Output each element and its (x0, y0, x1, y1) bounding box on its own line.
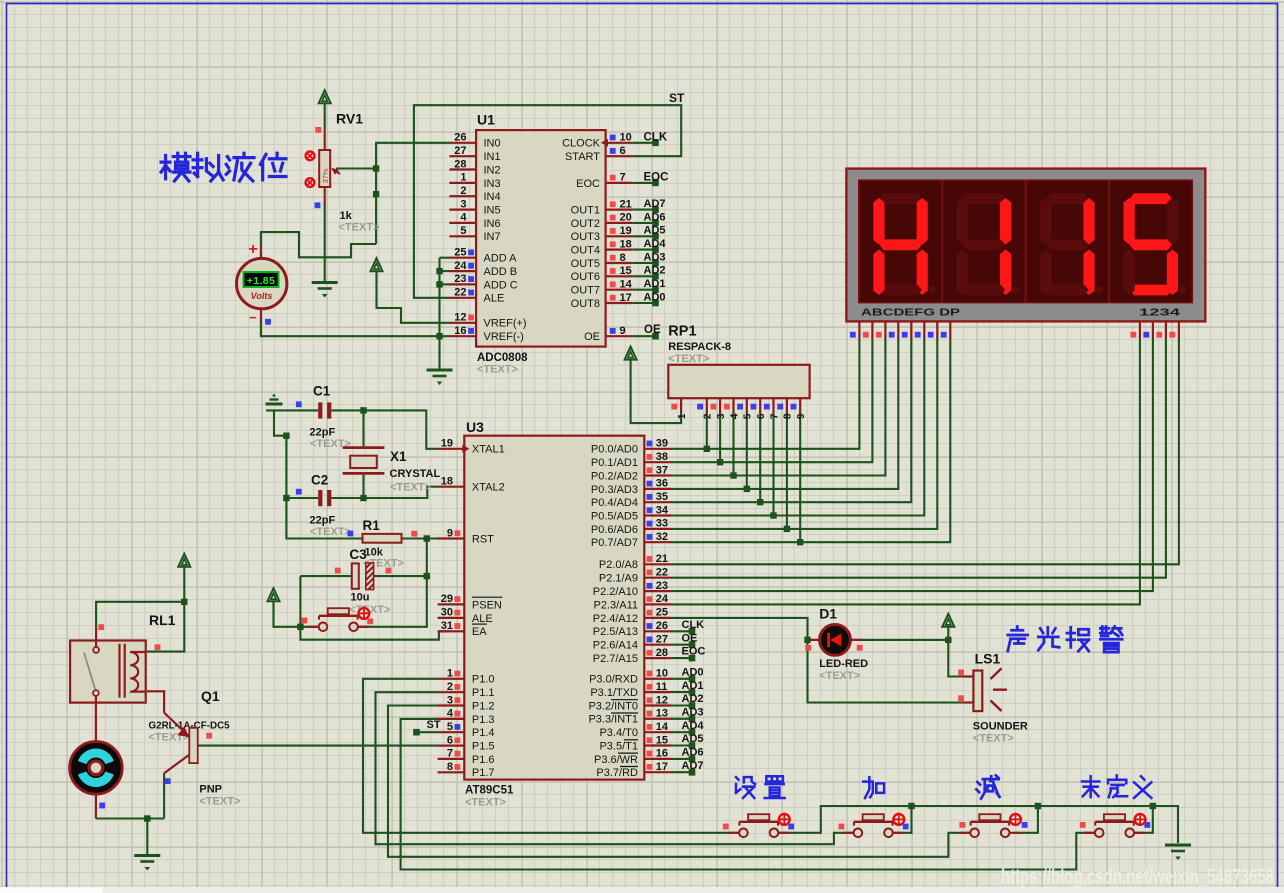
svg-text:AD6: AD6 (682, 747, 704, 759)
svg-text:P2.4/A12: P2.4/A12 (593, 613, 638, 625)
svg-text:16: 16 (656, 748, 668, 760)
svg-text:25: 25 (454, 247, 466, 259)
svg-text:18: 18 (441, 476, 453, 488)
node P0.4 / RP1 junction (757, 499, 763, 505)
svg-text:P1.1: P1.1 (472, 687, 495, 699)
U3 pin 7 state square (455, 751, 461, 757)
RV1 pin state squares (315, 127, 321, 133)
svg-text:6: 6 (447, 734, 453, 746)
Q1 state squares (206, 733, 212, 739)
display segment pin DP (949, 321, 951, 338)
push button SET (739, 829, 748, 838)
RV1 terminal marker bottom (306, 178, 315, 187)
svg-text:4: 4 (447, 708, 454, 720)
U1 pin 23 ADD C (449, 283, 476, 285)
display digit 1 showing H (873, 193, 936, 295)
svg-text:CLOCK: CLOCK (562, 138, 601, 150)
U3 pin 30 ALE (438, 617, 465, 619)
U3 pin 12 state square (647, 697, 653, 703)
crystal X1 (343, 446, 385, 449)
U3 pin 1 P1.0 (438, 678, 465, 680)
svg-text:22: 22 (454, 287, 466, 299)
svg-text:12: 12 (454, 312, 466, 324)
svg-text:22pF: 22pF (310, 515, 336, 527)
svg-text:33: 33 (656, 518, 668, 530)
U3 pin 9 RST (438, 537, 465, 539)
svg-text:P1.5: P1.5 (472, 741, 495, 753)
wire CLK stub at U1 CLOCK (632, 142, 655, 144)
U3 pin 29 state square (455, 596, 461, 602)
svg-text:RP1: RP1 (668, 324, 696, 340)
node P0.2 / RP1 junction (730, 472, 736, 478)
ground below U1 (427, 369, 453, 372)
relay switch lever (84, 653, 95, 690)
wire U3 P2.0 to display digit 4 common (671, 337, 1179, 564)
wire AD1 stub at U1 OUT7 (632, 289, 655, 291)
svg-text:CRYSTAL: CRYSTAL (390, 468, 441, 480)
node VCC row junction (297, 624, 303, 630)
Q1 collector (164, 755, 189, 774)
svg-text:AD2: AD2 (682, 693, 704, 705)
svg-text:OUT2: OUT2 (571, 218, 600, 230)
svg-text:AD4: AD4 (682, 720, 705, 732)
svg-text:−: − (249, 310, 257, 325)
svg-text:13: 13 (656, 708, 668, 720)
svg-text:OUT3: OUT3 (571, 231, 600, 243)
display digit 1 common pin (1139, 321, 1141, 338)
wire AD2 stub at U3 P3.2 (671, 704, 692, 706)
svg-text:<TEXT>: <TEXT> (339, 222, 380, 234)
U3 pin 12 P3.2/INT0 (644, 704, 671, 706)
wire power stem to relay junction (183, 567, 185, 602)
motor state square (99, 803, 105, 809)
IC U1 ADC0808 body (476, 130, 605, 347)
svg-text:AD7: AD7 (682, 760, 704, 772)
svg-text:IN0: IN0 (484, 138, 501, 150)
svg-text:AD5: AD5 (682, 733, 704, 745)
svg-text:27: 27 (454, 145, 466, 157)
node X1/C2 junction (360, 495, 366, 501)
svg-text:P3.1/TXD: P3.1/TXD (590, 687, 638, 699)
display digit 4 common pin (1178, 321, 1180, 338)
wire power to U1 VREF(+) (377, 271, 450, 323)
U3 PSEN overline (472, 596, 503, 598)
wire U3 P1.3 to button UNDEF (401, 719, 1095, 870)
svg-text:<TEXT>: <TEXT> (310, 526, 351, 538)
svg-text:IN5: IN5 (484, 205, 501, 217)
svg-text:16: 16 (454, 325, 466, 337)
svg-text:D1: D1 (819, 606, 837, 622)
U3 pin 24 state square (647, 596, 653, 602)
node P0.6 / RP1 junction (784, 526, 790, 532)
svg-text:8: 8 (620, 252, 626, 264)
ground at button rail (1165, 844, 1191, 847)
U1 pin 14 OUT7 (606, 289, 633, 291)
svg-text:6: 6 (756, 413, 767, 419)
svg-text:VREF(+): VREF(+) (484, 318, 527, 330)
U3 pin 2 state square (455, 684, 461, 690)
svg-text:5: 5 (447, 721, 453, 733)
relay bottom contact to motor (95, 696, 97, 742)
svg-text:P1.7: P1.7 (472, 767, 495, 779)
sounder LS1 body (973, 671, 982, 712)
wire ADD B tap (440, 270, 450, 272)
svg-text:4: 4 (729, 413, 740, 419)
svg-text:EOC: EOC (644, 171, 669, 183)
svg-text:IN7: IN7 (484, 231, 501, 243)
ground below motor (134, 854, 160, 857)
wire RP1 pin 2 drop (706, 412, 708, 449)
svg-text:1k: 1k (340, 210, 353, 222)
U3 pin 21 state square (647, 556, 653, 562)
svg-text:P0.0/AD0: P0.0/AD0 (591, 444, 638, 456)
wire C2 right to XTAL2 (331, 487, 438, 498)
U1 pin 16 state square (468, 328, 474, 334)
svg-text:PNP: PNP (199, 784, 222, 796)
svg-text:P2.1/A9: P2.1/A9 (599, 573, 638, 585)
svg-text:P2.7/A15: P2.7/A15 (593, 653, 638, 665)
svg-text:25: 25 (656, 607, 668, 619)
wire AD1 stub at U3 P3.1 (671, 691, 692, 693)
wire U3 P2.2 to display digit 2 common (671, 337, 1153, 591)
label (Chinese) undefined button (1082, 776, 1099, 797)
wire motor bottom row (96, 817, 164, 819)
U3 pin 15 P3.5/T1 (644, 744, 671, 746)
svg-text:21: 21 (620, 198, 632, 210)
svg-text:EOC: EOC (682, 646, 706, 658)
svg-text:OUT6: OUT6 (571, 271, 600, 283)
svg-text:U3: U3 (466, 419, 484, 435)
svg-text:<TEXT>: <TEXT> (973, 733, 1014, 745)
svg-text:P0.3/AD3: P0.3/AD3 (591, 484, 638, 496)
capacitor C1 (318, 402, 322, 418)
RP1 pin 5 (746, 398, 748, 413)
U3 P3.6 WR overline (618, 752, 638, 754)
U3 pin 14 P3.4/T0 (644, 731, 671, 733)
display segment pin C (884, 321, 886, 338)
U1 pin 17 OUT8 (606, 302, 633, 304)
U3 pin 37 P0.2/AD2 (644, 474, 671, 476)
power arrow at relay (178, 554, 190, 567)
node C2 left junction (283, 495, 289, 501)
wire C3 left (300, 575, 351, 577)
LED D1 (820, 625, 851, 656)
svg-text:14: 14 (656, 721, 669, 733)
U3 pin 4 state square (455, 711, 461, 717)
svg-text:23: 23 (656, 580, 668, 592)
wire C2 left (286, 497, 318, 499)
wire AD6 stub at U1 OUT2 (632, 222, 655, 224)
node P0.5 / RP1 junction (770, 512, 776, 518)
U3 pin 6 state square (455, 737, 461, 743)
wire AD5 stub at U1 OUT3 (632, 235, 655, 237)
svg-text:P3.3/INT1: P3.3/INT1 (588, 714, 638, 726)
svg-text:1234: 1234 (1139, 307, 1180, 319)
svg-text:ST: ST (669, 91, 685, 105)
svg-text:AD5: AD5 (644, 225, 666, 237)
label (Chinese) analog liquid level (161, 153, 190, 181)
ground below RV1 (312, 281, 338, 284)
svg-text:U1: U1 (477, 112, 495, 128)
display segment pin F (923, 321, 925, 338)
voltmeter top pin (260, 246, 262, 259)
svg-text:P2.6/A14: P2.6/A14 (593, 640, 638, 652)
wire relay coil bottom to Q1 emitter (147, 691, 164, 712)
D1 state squares (805, 645, 811, 651)
U3 P3.5 T1 overline (624, 739, 638, 741)
U3 pin 25 state square (647, 610, 653, 616)
wire AD2 stub at U1 OUT6 (632, 275, 655, 277)
U3 pin 23 P2.2/A10 (644, 590, 671, 592)
U1 pin 18 state square (610, 241, 616, 247)
node P0.0 / RP1 junction (704, 446, 710, 452)
voltmeter pin state square (265, 319, 271, 325)
svg-text:OUT1: OUT1 (571, 205, 600, 217)
svg-text:<TEXT>: <TEXT> (819, 670, 860, 682)
U3 pin 23 state square (647, 583, 653, 589)
display segment pin A (858, 321, 860, 338)
U1 pin 24 state square (468, 263, 474, 269)
display segment pin G (936, 321, 938, 338)
wire button UNDEF right drop (1133, 806, 1153, 833)
wire U3 P1.0 to button SET (363, 679, 739, 833)
U1 pin 24 ADD B (449, 270, 476, 272)
wire U3 P0.5 to display segment pin (671, 337, 924, 516)
svg-text:P2.5/A13: P2.5/A13 (593, 626, 638, 638)
display digit 2 common pin (1152, 321, 1154, 338)
U1 pin 25 state square (468, 250, 474, 256)
U1 pin 12 VREF(+) (449, 322, 476, 324)
wire U3 P2.4 to LED D1 (671, 618, 808, 640)
U3 pin 34 state square (647, 507, 653, 513)
svg-text:38: 38 (656, 451, 668, 463)
svg-text:C3: C3 (349, 547, 367, 562)
U3 pin 11 P3.1/TXD (644, 691, 671, 693)
svg-text:https://blog.csdn.net/weixin_5: https://blog.csdn.net/weixin_54873658 (1001, 866, 1274, 889)
svg-text:2: 2 (703, 413, 714, 419)
svg-text:P0.1/AD1: P0.1/AD1 (591, 457, 638, 469)
svg-text:1: 1 (447, 668, 453, 680)
RP1 pin 6 (759, 398, 761, 413)
svg-text:2: 2 (460, 185, 466, 197)
wire C3 right (374, 575, 427, 577)
svg-text:P1.4: P1.4 (472, 727, 495, 739)
wire AD6 stub at U3 P3.6 (671, 758, 692, 760)
wire U3 P0.2 to display segment pin (671, 337, 886, 476)
RP1 pin 7 (772, 398, 774, 413)
display segment pin E (910, 321, 912, 338)
U3 pin 33 state square (647, 521, 653, 527)
svg-text:P0.7/AD7: P0.7/AD7 (591, 537, 638, 549)
wire button MINUS right drop (1014, 806, 1038, 833)
wire power to RV1 top (324, 104, 326, 130)
display digit 3 common pin (1165, 321, 1167, 338)
wire RV1 wiper short (338, 167, 376, 169)
wire ADD C tap (440, 283, 450, 285)
motor body (70, 742, 123, 795)
node C3 right junction (424, 573, 430, 579)
svg-text:29: 29 (441, 593, 453, 605)
RP1 pin 1 (680, 398, 682, 412)
node ADD C junction (436, 281, 442, 287)
ground at C1 (266, 403, 283, 406)
U1 pin 6 state square (610, 148, 616, 154)
transistor Q1 base bar (189, 728, 197, 763)
svg-text:35: 35 (656, 491, 668, 503)
U3 pin 17 state square (647, 764, 653, 770)
U1 pin 5 IN7 (449, 235, 476, 237)
C1 state square (296, 401, 302, 407)
RP1 pin 2 (706, 398, 708, 413)
svg-text:1: 1 (460, 172, 466, 184)
svg-text:14: 14 (620, 279, 633, 291)
U3 XTAL1 input arrow (462, 445, 469, 453)
node ADD B junction (436, 268, 442, 274)
wire relay VCC net (96, 602, 184, 628)
svg-text:ADD C: ADD C (484, 279, 518, 291)
wire ST net: U1 START to U1 ALE (414, 105, 681, 298)
node C1/X1 junction (360, 407, 366, 413)
U1 pin 4 IN6 (449, 222, 476, 224)
svg-text:7: 7 (447, 748, 453, 760)
svg-text:P2.3/A11: P2.3/A11 (594, 599, 638, 611)
node VREF(-) junction (436, 333, 442, 339)
svg-text:3: 3 (460, 198, 466, 210)
U1 pin 23 state square (468, 276, 474, 282)
svg-text:AD6: AD6 (644, 211, 666, 223)
U1 pin 27 IN1 (449, 155, 476, 157)
svg-text:19: 19 (620, 225, 632, 237)
U1 pin 19 state square (610, 228, 616, 234)
IC U3 AT89C51 body (464, 436, 644, 780)
svg-text:IN4: IN4 (484, 191, 501, 203)
U1 pin 25 ADD A (449, 257, 476, 259)
svg-text:34: 34 (656, 504, 669, 516)
voltmeter bottom pin (260, 309, 262, 322)
svg-text:36: 36 (656, 478, 668, 490)
LS1 sound rays (991, 668, 1008, 711)
U3 pin 35 state square (647, 494, 653, 500)
wire AD7 stub at U3 P3.7 (671, 771, 692, 773)
wire R1 right to U3 RST (402, 537, 450, 539)
wire Q1 collector drop (163, 773, 165, 818)
U1 pin 16 VREF(-) (449, 335, 476, 337)
svg-text:RST: RST (472, 533, 494, 545)
svg-text:39: 39 (656, 438, 668, 450)
label (Chinese) sound and light alarm (1008, 626, 1028, 651)
svg-text:C2: C2 (311, 473, 328, 488)
svg-text:+: + (248, 241, 257, 258)
U3 pin 18 XTAL2 (438, 486, 465, 488)
U3 pin 36 P0.3/AD3 (644, 488, 671, 490)
svg-text:ADD B: ADD B (484, 266, 518, 278)
wire AD4 stub at U1 OUT4 (632, 249, 655, 251)
U3 pin 15 state square (647, 737, 653, 743)
U3 pin 8 state square (455, 764, 461, 770)
svg-text:OUT7: OUT7 (571, 285, 600, 297)
svg-text:ST: ST (427, 719, 441, 731)
svg-text:P1.3: P1.3 (472, 714, 495, 726)
svg-text:20: 20 (620, 212, 632, 224)
wire voltmeter minus to U1 VREF(-) (261, 321, 450, 336)
svg-text:OUT4: OUT4 (571, 245, 600, 257)
U3 pin 32 P0.7/AD7 (644, 541, 671, 543)
wire RST to C3 right and reset button (357, 539, 427, 627)
U1 pin 9 OE (606, 335, 633, 337)
wire AD7 stub at U1 OUT1 (632, 209, 655, 211)
svg-text:ALE: ALE (484, 293, 505, 305)
wire RP1 pin 7 drop (772, 412, 774, 516)
RP1 pin 9 (799, 398, 801, 413)
wire CLK stub at U3 (671, 630, 692, 632)
svg-text:P1.2: P1.2 (472, 700, 495, 712)
node rail junction at PLUS (908, 803, 914, 809)
svg-text:X1: X1 (390, 449, 407, 464)
RP1 pin 8 (786, 398, 788, 413)
wire button ground rail (778, 806, 1178, 843)
svg-text:Q1: Q1 (201, 688, 220, 704)
svg-text:AD7: AD7 (644, 198, 666, 210)
U3 pin 6 P1.5 (438, 744, 465, 746)
U1 pin 22 state square (468, 290, 474, 296)
svg-text:<TEXT>: <TEXT> (199, 796, 240, 808)
svg-text:RL1: RL1 (149, 612, 176, 628)
wire ST stub at U3 P1.4 (416, 731, 438, 733)
svg-text:18: 18 (620, 238, 632, 250)
U1 pin 26 IN0 (449, 142, 476, 144)
svg-text:+1.85: +1.85 (247, 275, 276, 287)
U3 pin 25 P2.4/A12 (644, 617, 671, 619)
svg-text:P3.2/INT0: P3.2/INT0 (588, 700, 638, 712)
svg-text:P3.4/T0: P3.4/T0 (599, 727, 638, 739)
U1 pin 9 state square (610, 328, 616, 334)
svg-text:5: 5 (743, 413, 754, 419)
svg-text:AD1: AD1 (682, 680, 704, 692)
wire D1 left to sounder bottom pin (808, 640, 962, 703)
svg-text:PSEN: PSEN (472, 599, 502, 611)
display segment pin D (897, 321, 899, 338)
U1 pin 28 IN2 (449, 168, 476, 170)
svg-text:ADD A: ADD A (484, 253, 518, 265)
svg-text:SOUNDER: SOUNDER (973, 721, 1028, 733)
U3 EA overline (472, 623, 487, 625)
U3 pin 28 P2.7/A15 (644, 657, 671, 659)
svg-text:P2.0/A8: P2.0/A8 (599, 559, 638, 571)
wire U3 P1.1 to button PLUS (376, 692, 854, 844)
svg-text:VREF(-): VREF(-) (484, 331, 524, 343)
wire X1 bottom to C2 row (362, 475, 364, 498)
U1 pin 7 EOC (606, 182, 633, 184)
wire U3 P0.0 to display segment pin (671, 337, 860, 449)
display 4-digit 7-segment body (846, 169, 1205, 322)
U3 pin 38 state square (647, 454, 653, 460)
push button UNDEF (1095, 829, 1104, 838)
wire RP1 pin 4 drop (732, 412, 734, 476)
U3 pin 35 P0.4/AD4 (644, 501, 671, 503)
U1 pin 15 OUT6 (606, 275, 633, 277)
node wiper junction (373, 165, 379, 171)
U1 pin 10 state square (610, 135, 616, 141)
U3 P3.3 INT1 overline (611, 712, 638, 714)
button UNDEF actuation marker (1135, 814, 1146, 825)
RV1 wiper arrow (334, 170, 340, 174)
svg-text:AD3: AD3 (644, 251, 666, 263)
U3 pin 30 state square (455, 610, 461, 616)
wire ground to C1 left (266, 409, 318, 411)
svg-text:32: 32 (656, 531, 668, 543)
svg-text:P0.5/AD5: P0.5/AD5 (591, 510, 638, 522)
svg-text:AT89C51: AT89C51 (465, 785, 514, 797)
